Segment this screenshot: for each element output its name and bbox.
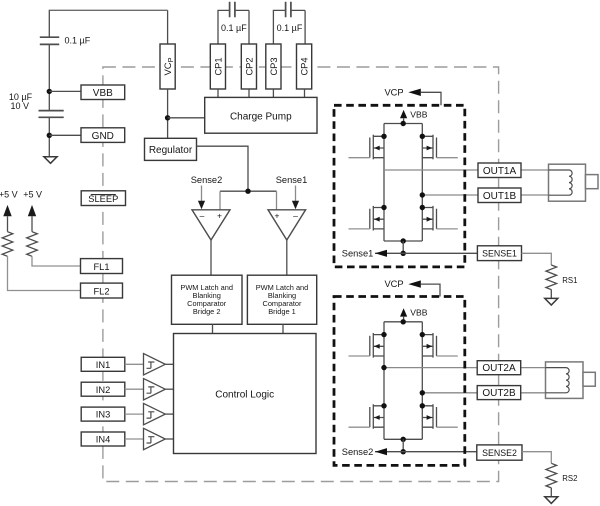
svg-text:Control Logic: Control Logic bbox=[215, 390, 274, 401]
wire OUT1A bbox=[384, 169, 569, 171]
buffer U-IN2 (schmitt) bbox=[125, 379, 174, 400]
wire comparator reference bus bbox=[220, 190, 277, 192]
svg-text:Sense1: Sense1 bbox=[276, 175, 308, 185]
wire Sense1 arrow bbox=[292, 186, 299, 210]
node reference junction bbox=[245, 189, 250, 194]
node bridge 1 sense bbox=[401, 251, 406, 256]
node bridge 2 VBB bbox=[401, 319, 406, 324]
node OUT2B junction bbox=[420, 390, 425, 395]
wire to GND bbox=[49, 134, 81, 136]
comparator bridge 2 bbox=[192, 210, 230, 240]
svg-text:CP1: CP1 bbox=[213, 57, 223, 75]
capacitor 0.1 uF (bulk bypass) bbox=[40, 37, 59, 44]
capacitor 10 uF 10 V bbox=[39, 111, 64, 118]
wire SENSE2 line bbox=[375, 451, 477, 453]
wire CP pins to charge pump bbox=[218, 89, 305, 97]
transistor Q6 high-side B bbox=[420, 332, 458, 358]
comparator bridge 1 bbox=[268, 210, 306, 240]
terminal IN2 bbox=[81, 382, 125, 396]
wire comparator 2 output bbox=[210, 240, 212, 275]
node bridge 2 sense top bbox=[401, 437, 406, 442]
svg-text:CP2: CP2 bbox=[244, 57, 254, 75]
svg-text:OUT1B: OUT1B bbox=[483, 191, 517, 202]
device boundary (dashed chip outline) bbox=[103, 67, 499, 482]
pin CP2 bbox=[241, 44, 256, 89]
wire resistor to FL1 bbox=[32, 256, 81, 266]
net label Sense2 arrow bbox=[375, 448, 387, 455]
wire to charge pump bbox=[168, 117, 205, 119]
svg-text:GND: GND bbox=[92, 131, 114, 142]
bridge 1 dashed outline bbox=[334, 105, 465, 267]
svg-text:CP4: CP4 bbox=[300, 57, 310, 75]
capacitor pump C1 0.1 uF bbox=[230, 2, 235, 18]
buffer U-IN4 (schmitt) bbox=[125, 428, 174, 449]
node OUT2A junction bbox=[381, 365, 386, 370]
node OUT1B junction bbox=[420, 192, 425, 197]
transistor Q2 high-side B bbox=[420, 134, 458, 160]
svg-text:FL1: FL1 bbox=[93, 262, 109, 272]
svg-text:VBB: VBB bbox=[410, 109, 427, 119]
buffer U-IN3 (schmitt) bbox=[125, 403, 174, 424]
wire pump cap 1 loop bbox=[218, 10, 249, 44]
wire regulator reference bbox=[197, 146, 249, 191]
svg-text:+5 V: +5 V bbox=[23, 190, 42, 200]
load motor winding 2 bbox=[546, 362, 596, 399]
wire bridge 2 sense stem bbox=[402, 439, 404, 451]
svg-text:Charge Pump: Charge Pump bbox=[230, 111, 292, 122]
terminal FL2 bbox=[81, 283, 123, 298]
svg-text:0.1 µF: 0.1 µF bbox=[65, 35, 91, 45]
supply VBB arrow (bridge 2) bbox=[400, 308, 428, 322]
terminal VBB bbox=[81, 85, 125, 100]
svg-text:–: – bbox=[200, 210, 205, 220]
svg-text:IN4: IN4 bbox=[96, 435, 110, 445]
resistor pull-up (to FL2) bbox=[2, 232, 13, 257]
buffer U-IN1 (schmitt) bbox=[125, 354, 174, 375]
svg-text:OUT2B: OUT2B bbox=[482, 388, 516, 399]
node charge pump tap bbox=[165, 115, 170, 120]
transistor Q5 high-side A bbox=[349, 332, 387, 358]
svg-text:Bridge 1: Bridge 1 bbox=[268, 307, 296, 316]
svg-text:0.1 µF: 0.1 µF bbox=[221, 23, 247, 33]
wire Sense2 arrow bbox=[198, 186, 205, 210]
svg-text:VCP: VCP bbox=[384, 279, 403, 289]
wire to VBB bbox=[49, 90, 81, 92]
svg-text:OUT1A: OUT1A bbox=[483, 166, 517, 177]
svg-text:SENSE1: SENSE1 bbox=[482, 248, 517, 258]
node bridge 1 sense top bbox=[401, 238, 406, 243]
pin CP3 bbox=[266, 44, 281, 89]
wire OUT1B bbox=[422, 194, 569, 196]
+5V arrow left bbox=[3, 205, 11, 232]
wire bridge 1 sense stem bbox=[402, 241, 404, 253]
transistor Q1 high-side A bbox=[349, 134, 387, 160]
wire pump cap 2 loop bbox=[273, 10, 305, 44]
ground bbox=[44, 157, 57, 164]
svg-text:RS1: RS1 bbox=[562, 276, 577, 285]
wire SENSE1 line bbox=[375, 252, 477, 254]
transistor Q8 low-side B bbox=[420, 403, 458, 429]
wire OUT2B bbox=[422, 392, 566, 394]
wire OUT2A bbox=[384, 367, 566, 369]
svg-text:+: + bbox=[275, 210, 280, 220]
pin CP1 bbox=[210, 44, 225, 89]
node GND junction bbox=[47, 133, 52, 138]
terminal OUT1A bbox=[478, 163, 521, 178]
svg-text:VBB: VBB bbox=[93, 88, 113, 99]
svg-text:VBB: VBB bbox=[410, 308, 427, 318]
svg-text:0.1 µF: 0.1 µF bbox=[277, 23, 303, 33]
svg-text:SENSE2: SENSE2 bbox=[482, 448, 517, 458]
terminal GND bbox=[81, 128, 125, 143]
resistor pull-up (to FL1) bbox=[27, 232, 38, 257]
terminal OUT2B bbox=[477, 386, 521, 400]
terminal IN3 bbox=[81, 407, 125, 421]
node bridge 1 VBB bbox=[401, 121, 406, 126]
pin CP4 bbox=[297, 44, 312, 89]
svg-text:Sense2: Sense2 bbox=[191, 175, 223, 185]
wire RS2 to ground bbox=[550, 488, 552, 497]
transistor Q3 low-side A bbox=[349, 205, 387, 231]
resistor RS1 bbox=[546, 265, 557, 290]
transistor Q7 low-side A bbox=[349, 403, 387, 429]
terminal SENSE1 bbox=[477, 246, 521, 261]
wire VCP arrow into bridge 1 bbox=[408, 89, 441, 106]
svg-text:Sense1: Sense1 bbox=[342, 248, 374, 258]
svg-text:VCP: VCP bbox=[384, 87, 403, 97]
bridge 2 dashed outline bbox=[334, 297, 465, 466]
wire bridge 2 rails bbox=[384, 322, 422, 440]
svg-text:+5 V: +5 V bbox=[0, 190, 18, 200]
terminal OUT2A bbox=[477, 361, 521, 375]
node VBB junction bbox=[47, 89, 52, 94]
resistor RS2 bbox=[546, 463, 557, 488]
terminal IN4 bbox=[81, 432, 125, 446]
block Regulator bbox=[145, 138, 197, 160]
wire VCP to regulator bbox=[167, 89, 169, 138]
svg-text:FL2: FL2 bbox=[93, 286, 109, 296]
wire left supply rail bbox=[48, 10, 50, 157]
svg-text:–: – bbox=[293, 210, 298, 220]
block Charge Pump bbox=[205, 97, 317, 133]
supply VBB arrow (bridge 1) bbox=[400, 109, 428, 123]
wire SENSE2 to RS2 bbox=[522, 452, 551, 464]
block PWM latch bridge 1 bbox=[247, 275, 316, 324]
wire VCP top feed bbox=[167, 10, 169, 44]
svg-text:+: + bbox=[217, 210, 222, 220]
ground RS1 bbox=[545, 298, 558, 305]
wire SENSE1 to RS1 bbox=[522, 253, 552, 265]
ground RS2 bbox=[545, 497, 558, 504]
load motor winding 1 bbox=[549, 164, 599, 201]
svg-text:CP3: CP3 bbox=[269, 57, 279, 75]
node bridge 2 sense bbox=[401, 449, 406, 454]
svg-text:OUT2A: OUT2A bbox=[482, 363, 516, 374]
terminal FL1 bbox=[81, 259, 123, 274]
terminal IN1 bbox=[81, 357, 125, 371]
svg-text:IN2: IN2 bbox=[96, 385, 110, 395]
terminal OUT1B bbox=[478, 188, 521, 203]
wire pwm2 to control logic bbox=[212, 324, 214, 333]
+5V arrow right bbox=[28, 205, 36, 232]
svg-text:Regulator: Regulator bbox=[149, 145, 193, 156]
svg-text:Sense2: Sense2 bbox=[342, 447, 374, 457]
wire comparator 1 output bbox=[286, 240, 288, 275]
block Control Logic bbox=[174, 334, 317, 454]
svg-text:IN1: IN1 bbox=[96, 360, 110, 370]
svg-text:Bridge 2: Bridge 2 bbox=[193, 307, 221, 316]
svg-text:SLEEP: SLEEP bbox=[88, 194, 118, 204]
terminal SLEEP bbox=[81, 191, 125, 206]
wire pwm1 to control logic bbox=[282, 324, 284, 333]
svg-text:IN3: IN3 bbox=[96, 410, 110, 420]
wire resistor to FL2 bbox=[8, 256, 81, 290]
terminal SENSE2 bbox=[477, 445, 522, 460]
svg-text:RS2: RS2 bbox=[562, 474, 577, 483]
value label 10 uF 10 V bbox=[9, 92, 33, 111]
wire top supply rail bbox=[49, 9, 168, 11]
svg-text:10 V: 10 V bbox=[11, 101, 30, 111]
transistor Q4 low-side B bbox=[420, 205, 458, 231]
capacitor pump C2 0.1 uF bbox=[286, 2, 291, 18]
net label Sense1 arrow bbox=[375, 250, 387, 257]
pin VCP bbox=[160, 44, 175, 89]
block PWM latch bridge 2 bbox=[172, 275, 243, 324]
wire RS1 to ground bbox=[550, 290, 552, 299]
wire bridge 1 rails bbox=[384, 124, 422, 242]
wire VCP arrow into bridge 2 bbox=[408, 280, 440, 296]
